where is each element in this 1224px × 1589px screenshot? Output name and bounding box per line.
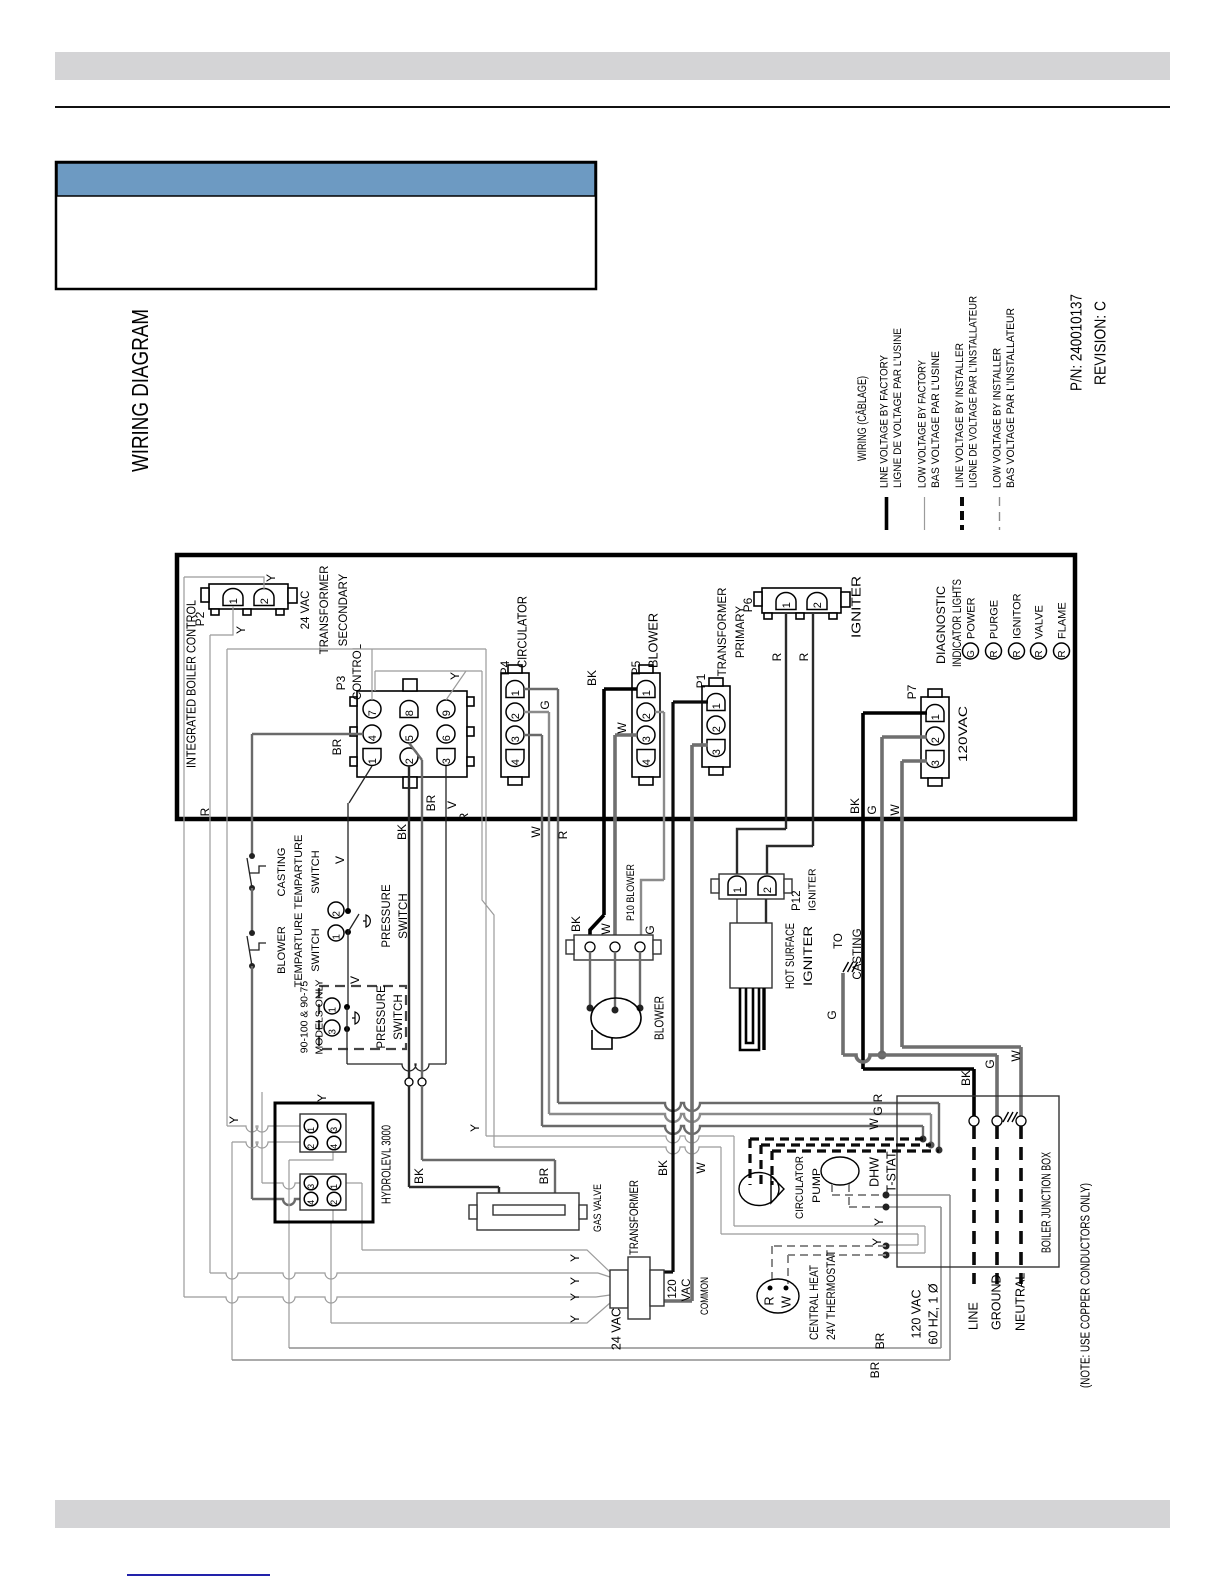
svg-text:2: 2	[404, 758, 416, 764]
connector P4 circulator	[501, 673, 529, 777]
svg-text:2: 2	[711, 726, 723, 732]
indicator light FLAME	[1054, 643, 1070, 659]
svg-text:BR: BR	[873, 1332, 887, 1349]
svg-text:BK: BK	[412, 1168, 426, 1184]
svg-text:LINE: LINE	[966, 1302, 980, 1330]
svg-text:3: 3	[328, 1029, 339, 1035]
wire W P7 pin3 to NEUTRAL	[902, 759, 927, 763]
svg-text:BR: BR	[424, 794, 438, 811]
LINE lead	[969, 1116, 979, 1126]
svg-text:2: 2	[306, 1144, 316, 1149]
svg-text:G: G	[865, 805, 879, 814]
svg-text:COMMON: COMMON	[699, 1277, 711, 1315]
svg-text:(NOTE: USE COPPER CONDUCTORS O: (NOTE: USE COPPER CONDUCTORS ONLY)	[1078, 1183, 1093, 1388]
svg-text:3: 3	[711, 749, 723, 755]
svg-text:P4: P4	[498, 660, 512, 675]
svg-text:R: R	[1034, 650, 1045, 657]
svg-text:P7: P7	[905, 684, 919, 699]
svg-text:24 VAC: 24 VAC	[609, 1308, 623, 1350]
svg-text:G: G	[825, 1010, 839, 1019]
connector P5 blower	[632, 673, 660, 777]
svg-text:LIGNE DE VOLTAGE PAR L’USINE: LIGNE DE VOLTAGE PAR L’USINE	[892, 328, 904, 488]
svg-text:PRIMARY: PRIMARY	[735, 606, 747, 659]
legend sample LOW VOLTAGE BY FACTORY	[924, 497, 926, 530]
wire BK P1 pin1 to transformer	[673, 700, 708, 703]
svg-text:CONTROL: CONTROL	[350, 644, 364, 700]
svg-text:120 VAC: 120 VAC	[909, 1289, 923, 1338]
svg-text:1: 1	[332, 934, 343, 940]
svg-text:GROUND: GROUND	[989, 1274, 1003, 1330]
svg-text:BLOWER: BLOWER	[646, 613, 660, 668]
svg-text:1: 1	[510, 690, 522, 696]
svg-text:W: W	[694, 1162, 708, 1174]
svg-text:LOW VOLTAGE BY FACTORY: LOW VOLTAGE BY FACTORY	[916, 359, 928, 488]
svg-text:W: W	[867, 1118, 881, 1130]
wire G P4 pin2	[524, 711, 549, 713]
svg-text:4: 4	[367, 735, 379, 741]
svg-text:R: R	[198, 807, 212, 816]
svg-text:120VAC: 120VAC	[956, 706, 970, 762]
svg-text:24 VAC: 24 VAC	[300, 591, 312, 630]
svg-text:BR: BR	[868, 1361, 882, 1378]
svg-text:2: 2	[812, 602, 824, 608]
svg-text:1: 1	[732, 887, 744, 893]
wire BK P3 pin2 to gas valve	[408, 766, 410, 1078]
svg-text:BOILER JUNCTION BOX: BOILER JUNCTION BOX	[1039, 1152, 1053, 1253]
svg-text:CASTING: CASTING	[276, 848, 288, 897]
igniter element	[740, 988, 759, 1050]
svg-text:G: G	[966, 650, 977, 658]
svg-text:2: 2	[329, 1200, 339, 1205]
svg-text:CASTING: CASTING	[852, 928, 864, 979]
svg-text:7: 7	[367, 710, 379, 716]
connector P10 blower	[574, 935, 653, 960]
svg-text:DHW: DHW	[867, 1157, 881, 1187]
svg-text:TEMPARTURE: TEMPARTURE	[293, 913, 305, 988]
wire BK P5 pin1 to P10	[604, 687, 637, 691]
svg-text:Y: Y	[234, 626, 248, 634]
svg-text:LIGNE DE VOLTAGE PAR L’INSTALL: LIGNE DE VOLTAGE PAR L’INSTALLATEUR	[967, 296, 979, 488]
wire to Hydrolevel pin4	[252, 1199, 300, 1205]
svg-text:2: 2	[259, 598, 271, 604]
wire W P4 pin3	[524, 734, 542, 736]
svg-text:1: 1	[328, 1007, 339, 1013]
svg-text:4: 4	[306, 1200, 316, 1205]
svg-text:VALVE: VALVE	[1033, 605, 1045, 639]
connector P6 igniter	[762, 588, 841, 613]
svg-text:Y: Y	[227, 1116, 241, 1124]
indicator light PURGE	[986, 643, 1002, 659]
svg-text:LINE VOLTAGE BY FACTORY: LINE VOLTAGE BY FACTORY	[878, 354, 890, 488]
hot surface igniter	[736, 899, 738, 923]
blower temperature switch	[249, 930, 255, 936]
svg-text:24V THERMOSTAT: 24V THERMOSTAT	[826, 1250, 838, 1340]
legend sample LINE VOLTAGE BY FACTORY	[885, 497, 889, 530]
DHW T-stat	[821, 1157, 859, 1185]
indicator light POWER	[963, 643, 979, 659]
svg-text:R: R	[1012, 650, 1023, 657]
wire BK P7 pin1 to LINE	[863, 711, 927, 715]
svg-text:3: 3	[510, 736, 522, 742]
wire W P5 pin3 to P10	[615, 733, 637, 737]
wire Y P2 pin2 -> 24VAC transformer	[184, 577, 264, 590]
indicator light IGNITOR	[1009, 643, 1025, 659]
wire V P3 pin1 to pressure switches	[349, 766, 372, 803]
svg-text:3: 3	[641, 736, 653, 742]
svg-text:8: 8	[404, 710, 416, 716]
24 VAC transformer	[610, 1270, 628, 1308]
wire R P4 pin1	[524, 688, 558, 690]
svg-text:W: W	[599, 923, 613, 935]
svg-text:CENTRAL HEAT: CENTRAL HEAT	[809, 1265, 821, 1340]
svg-text:BK: BK	[656, 1160, 670, 1176]
svg-text:6: 6	[441, 735, 453, 741]
svg-text:P3: P3	[334, 675, 348, 690]
circulator pump dashed wires	[750, 1137, 923, 1140]
wire V return to P3 pin3	[347, 1064, 446, 1071]
svg-text:IGNITER: IGNITER	[803, 926, 815, 986]
svg-text:WIRING DIAGRAM: WIRING DIAGRAM	[127, 309, 153, 472]
svg-text:2: 2	[762, 887, 774, 893]
svg-text:BK: BK	[585, 670, 599, 686]
connector P3 control	[357, 691, 467, 777]
svg-text:PRESSURE: PRESSURE	[376, 985, 388, 1049]
svg-text:5: 5	[404, 735, 416, 741]
connector P12 igniter	[719, 874, 784, 899]
svg-text:CIRCULATOR: CIRCULATOR	[794, 1156, 806, 1219]
svg-text:PRESSURE: PRESSURE	[381, 884, 393, 948]
svg-text:SWITCH: SWITCH	[393, 994, 405, 1039]
svg-text:3: 3	[441, 758, 453, 764]
wire Hydrolevel lower pin2 v331 to 24VAC	[332, 1209, 334, 1222]
svg-text:TRANSFORMER: TRANSFORMER	[627, 1180, 641, 1255]
svg-text:1: 1	[781, 602, 793, 608]
svg-text:BLOWER: BLOWER	[276, 926, 288, 974]
svg-text:TRANSFORMER: TRANSFORMER	[717, 588, 729, 677]
svg-text:1: 1	[329, 1184, 339, 1189]
casting ground wire	[841, 973, 845, 1055]
wire path D to thermostat circuit	[494, 1147, 721, 1154]
svg-text:TEMPARTURE: TEMPARTURE	[293, 835, 305, 910]
svg-text:1: 1	[306, 1127, 316, 1132]
svg-text:GAS VALVE: GAS VALVE	[592, 1184, 604, 1232]
svg-text:G: G	[643, 925, 657, 934]
svg-text:W: W	[1009, 1050, 1023, 1062]
svg-text:Y: Y	[315, 1094, 329, 1102]
svg-text:Y: Y	[568, 1277, 582, 1285]
svg-text:BAS VOLTAGE PAR L’INSTALLATEUR: BAS VOLTAGE PAR L’INSTALLATEUR	[1005, 308, 1017, 488]
svg-text:R: R	[762, 1296, 776, 1305]
svg-text:BK: BK	[959, 1070, 973, 1086]
svg-text:120: 120	[667, 1279, 679, 1298]
svg-text:W: W	[888, 804, 902, 816]
wire Hydrolevel top pin4 v289 + H1348 loop	[289, 1151, 333, 1160]
svg-text:BAS VOLTAGE PAR L’USINE: BAS VOLTAGE PAR L’USINE	[930, 351, 942, 488]
svg-text:P/N: 240010137: P/N: 240010137	[1068, 294, 1085, 391]
connector P7 120VAC	[921, 697, 949, 778]
svg-text:IGNITOR: IGNITOR	[1011, 593, 1023, 639]
svg-text:Y: Y	[264, 574, 278, 582]
svg-text:Y: Y	[448, 672, 462, 680]
blower motor	[589, 952, 591, 1006]
wire G P5 pin2 to P10	[655, 711, 664, 713]
svg-text:1: 1	[228, 598, 240, 604]
svg-text:DIAGNOSTIC: DIAGNOSTIC	[936, 586, 948, 664]
svg-text:2: 2	[641, 713, 653, 719]
boiler junction box	[897, 1096, 1059, 1267]
top rule line	[55, 106, 1170, 108]
svg-text:Y: Y	[568, 1315, 582, 1323]
svg-text:T-STAT: T-STAT	[884, 1151, 898, 1193]
svg-text:TO: TO	[833, 933, 845, 949]
pressure switch	[345, 908, 351, 914]
central heat 24V thermostat	[757, 1279, 799, 1313]
svg-text:2: 2	[332, 911, 343, 917]
svg-text:R: R	[871, 1093, 885, 1102]
svg-text:IGNITER: IGNITER	[849, 576, 863, 638]
wire v262 to Hydrolevel pin3	[261, 1092, 263, 1183]
svg-text:WIRING (CÂBLAGE): WIRING (CÂBLAGE)	[856, 376, 869, 461]
svg-text:4: 4	[510, 759, 522, 765]
svg-text:1: 1	[711, 703, 723, 709]
svg-text:4: 4	[329, 1144, 339, 1149]
NEUTRAL lead	[1016, 1116, 1026, 1126]
Hydrolevel 3000	[275, 1103, 373, 1222]
svg-text:3: 3	[930, 760, 942, 766]
wire P3 pin7 tee (H649)	[371, 649, 373, 700]
svg-text:P1: P1	[694, 673, 708, 688]
svg-text:V: V	[348, 976, 362, 984]
svg-text:1: 1	[367, 758, 379, 764]
svg-text:R: R	[797, 652, 811, 661]
svg-text:SWITCH: SWITCH	[310, 850, 322, 893]
svg-text:Y: Y	[568, 1293, 582, 1301]
svg-text:POWER: POWER	[965, 597, 977, 639]
svg-text:3: 3	[306, 1184, 316, 1189]
svg-text:NEUTRAL: NEUTRAL	[1013, 1273, 1027, 1331]
svg-text:R: R	[770, 652, 784, 661]
svg-text:BLOWER: BLOWER	[652, 996, 666, 1040]
svg-text:60 HZ, 1 Ø: 60 HZ, 1 Ø	[926, 1283, 940, 1344]
svg-text:P10 BLOWER: P10 BLOWER	[625, 864, 637, 921]
wire G P7 pin2 to GROUND	[882, 735, 927, 739]
svg-text:BR: BR	[330, 738, 344, 755]
svg-text:2: 2	[930, 737, 942, 743]
wire R P6 pin1 to P12	[785, 614, 787, 829]
svg-text:1: 1	[930, 714, 942, 720]
integrated boiler control box	[177, 555, 1075, 819]
wire R P6 pin2 to P12	[812, 614, 814, 846]
gas valve	[477, 1193, 579, 1230]
svg-text:HOT SURFACE: HOT SURFACE	[785, 923, 797, 989]
svg-text:90-100 & 90-75: 90-100 & 90-75	[299, 981, 311, 1054]
wire W P1 pin3 to transformer	[692, 743, 708, 747]
svg-text:P5: P5	[629, 660, 643, 675]
90-100 models pressure switch	[319, 986, 406, 1049]
bottom blue link line	[127, 1574, 270, 1576]
svg-text:P2: P2	[193, 611, 207, 626]
svg-text:R: R	[1057, 650, 1068, 657]
svg-text:P12: P12	[791, 891, 803, 911]
svg-text:G: G	[538, 700, 552, 709]
svg-text:V: V	[445, 801, 459, 809]
wire Y P3 pin9 (H671/v486) to junction area	[374, 671, 376, 691]
svg-text:SWITCH: SWITCH	[310, 928, 322, 971]
svg-text:4: 4	[641, 759, 653, 765]
svg-text:W: W	[529, 826, 543, 838]
wire BR P3 pin5 to gas valve	[409, 743, 422, 760]
casting temperature switch	[249, 853, 255, 859]
svg-text:TRANSFORMER: TRANSFORMER	[319, 566, 331, 655]
svg-text:MODELS ONLY: MODELS ONLY	[314, 979, 326, 1054]
svg-text:1: 1	[641, 690, 653, 696]
svg-text:R: R	[457, 812, 471, 821]
GROUND lead	[992, 1116, 1002, 1126]
svg-text:LOW VOLTAGE BY INSTALLER: LOW VOLTAGE BY INSTALLER	[991, 348, 1003, 488]
wire Y P2 pin1	[210, 606, 233, 635]
svg-text:R: R	[556, 830, 570, 839]
svg-text:SECONDARY: SECONDARY	[338, 573, 350, 646]
svg-text:W: W	[615, 722, 629, 734]
svg-text:V: V	[333, 856, 347, 864]
top gray bar	[55, 52, 1170, 80]
svg-text:REVISION: C: REVISION: C	[1092, 301, 1109, 385]
svg-text:W: W	[779, 1296, 793, 1308]
bottom gray bar	[55, 1500, 1170, 1528]
svg-text:BK: BK	[848, 798, 862, 814]
indicator light VALVE	[1031, 643, 1047, 659]
svg-text:IGNITER: IGNITER	[807, 868, 819, 911]
legend sample LOW VOLTAGE BY INSTALLER	[999, 497, 1001, 530]
svg-text:G: G	[983, 1059, 997, 1068]
svg-text:CIRCULATOR: CIRCULATOR	[515, 596, 529, 668]
wire path C to thermostat circuit	[486, 1136, 734, 1143]
legend sample LINE VOLTAGE BY INSTALLER	[960, 497, 964, 530]
svg-text:R: R	[989, 650, 1000, 657]
svg-text:VAC: VAC	[681, 1279, 693, 1302]
wire Hydrolevel pin2 down v232 + H1360 loop	[231, 1142, 233, 1360]
svg-text:HYDROLEVL 3000: HYDROLEVL 3000	[379, 1125, 393, 1204]
connector P1 transformer primary	[702, 686, 730, 767]
svg-text:BK: BK	[395, 824, 409, 840]
wire BR P3 pin4 to temperature switches	[252, 733, 363, 735]
svg-text:2: 2	[510, 713, 522, 719]
svg-text:LINE VOLTAGE BY INSTALLER: LINE VOLTAGE BY INSTALLER	[954, 343, 966, 488]
connector P2	[209, 584, 288, 609]
svg-text:Y: Y	[870, 1238, 884, 1246]
svg-text:Y: Y	[872, 1218, 886, 1226]
svg-text:PURGE: PURGE	[988, 600, 1000, 639]
svg-text:3: 3	[329, 1127, 339, 1132]
table with blue header	[56, 162, 596, 289]
svg-text:9: 9	[441, 710, 453, 716]
svg-text:BK: BK	[569, 916, 583, 932]
svg-text:Y: Y	[468, 1124, 482, 1132]
svg-text:G: G	[871, 1106, 885, 1115]
svg-text:FLAME: FLAME	[1056, 602, 1068, 639]
svg-text:BR: BR	[537, 1167, 551, 1184]
wire Hydrolevel lower pin1 v362 to 24VAC	[346, 1182, 362, 1184]
circulator pump	[739, 1173, 779, 1206]
svg-text:Y: Y	[568, 1254, 582, 1262]
